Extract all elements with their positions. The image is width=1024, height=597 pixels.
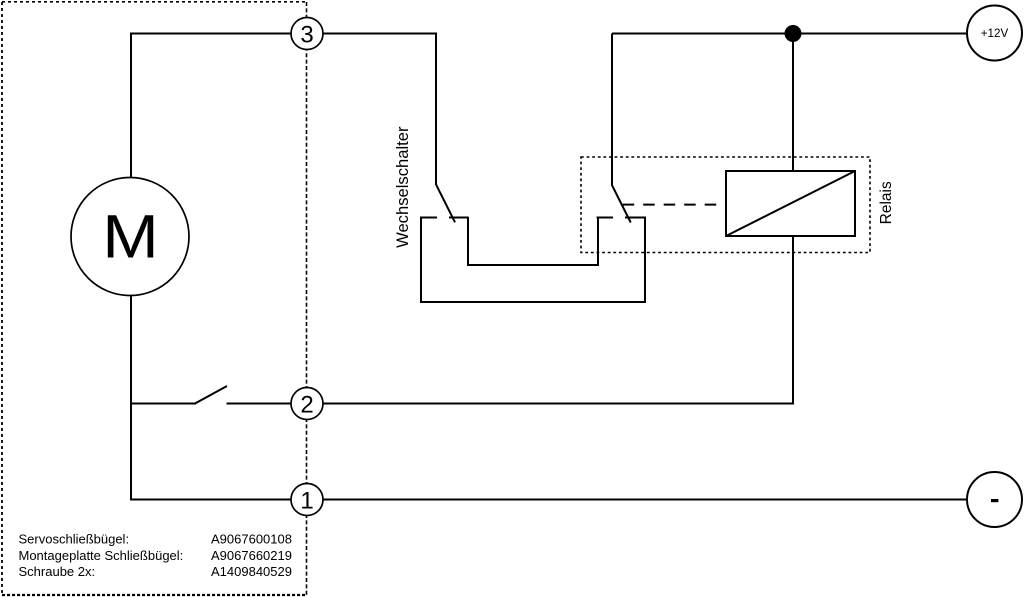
wire relay coil bottom to node 2 — [323, 236, 793, 404]
svg-text:Servoschließbügel:: Servoschließbügel: — [19, 532, 130, 547]
limit switch blade (open) — [195, 386, 227, 404]
relay coil K1 — [726, 171, 855, 236]
motor M1 — [71, 178, 189, 296]
wire inner U (Wechselschalter right contact to relay left contact) — [468, 217, 598, 265]
servo unit enclosure (dashed box) left edge — [1, 2, 3, 596]
node 3 terminal — [291, 18, 323, 50]
wire motor bottom to node 1 — [131, 295, 291, 500]
svg-text:A9067660219: A9067660219 — [211, 548, 292, 563]
svg-text:A9067600108: A9067600108 — [211, 532, 292, 547]
servo unit enclosure (dashed box) right edge — [306, 2, 308, 596]
Wechselschalter switch blade S1 — [436, 185, 455, 223]
relay switch blade — [612, 185, 631, 222]
node 1 terminal — [291, 484, 323, 516]
servo unit enclosure (dashed box) top edge — [2, 1, 307, 3]
wire +12V rail to relay switch pole — [611, 34, 613, 187]
svg-text:2: 2 — [300, 391, 313, 418]
relay switch right throw contact — [625, 217, 646, 219]
wire outer U (Wechselschalter left contact to relay right contact) — [421, 217, 645, 302]
svg-text:A1409840529: A1409840529 — [211, 564, 292, 579]
svg-text:M: M — [102, 203, 159, 271]
wire +12V rail (top) — [612, 33, 967, 35]
svg-text:Montageplatte Schließbügel:: Montageplatte Schließbügel: — [19, 548, 184, 563]
relay switch left throw contact — [597, 217, 614, 219]
Wechselschalter left throw contact — [420, 217, 437, 219]
Wechselschalter right throw contact — [449, 217, 469, 219]
wire node 3 to Wechselschalter pole — [323, 34, 436, 186]
svg-text:Relais: Relais — [878, 181, 895, 224]
svg-text:+12V: +12V — [981, 28, 1009, 40]
wire junction to relay coil top — [792, 34, 794, 172]
relay actuation dashed link — [623, 204, 725, 206]
+12V supply terminal — [967, 6, 1022, 61]
minus supply terminal — [967, 472, 1022, 527]
wire node 2 to limit switch contact — [227, 403, 292, 405]
node 2 terminal — [291, 388, 323, 420]
svg-text:3: 3 — [300, 21, 313, 48]
svg-text:1: 1 — [300, 487, 313, 514]
wire node 1 to minus terminal — [323, 499, 967, 501]
wire motor top to node 3 — [131, 34, 291, 179]
svg-text:Schraube 2x:: Schraube 2x: — [19, 564, 96, 579]
servo unit enclosure (dashed box) bottom edge — [2, 594, 307, 596]
svg-text:Wechselschalter: Wechselschalter — [393, 126, 412, 248]
junction dot on +12V rail — [785, 25, 802, 42]
relay enclosure (dashed box) — [581, 157, 870, 253]
wire limit switch pole to motor line — [131, 403, 196, 405]
